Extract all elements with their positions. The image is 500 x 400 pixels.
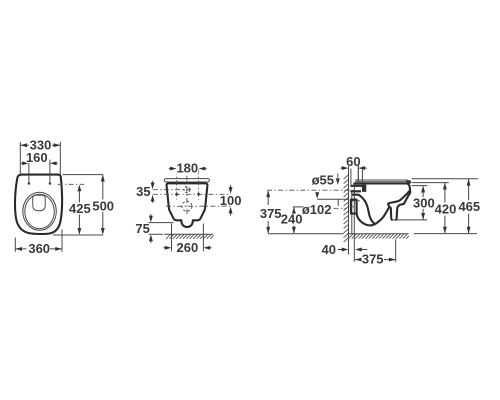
dim 330 text <box>29 137 52 152</box>
dim 375 bottom ext <box>395 239 397 262</box>
ø102 axis dash-dot after text <box>334 207 358 209</box>
dim 300 arrows <box>421 186 425 220</box>
ø102 top down arrow <box>315 192 319 199</box>
inner bowl <box>25 194 55 228</box>
svg-text:420: 420 <box>435 201 457 216</box>
ground line <box>164 233 213 235</box>
svg-text:425: 425 <box>69 201 91 216</box>
svg-text:260: 260 <box>177 240 199 255</box>
svg-text:ø55: ø55 <box>312 173 334 188</box>
svg-text:500: 500 <box>92 199 114 214</box>
dim 425 arrows <box>77 185 81 235</box>
svg-text:ø102: ø102 <box>302 202 332 217</box>
ø55 down arrow <box>336 174 340 185</box>
svg-text:75: 75 <box>135 221 149 236</box>
flush pipe vertical feeds <box>358 164 362 184</box>
back gap thin vertical <box>351 192 353 234</box>
wall face line <box>348 166 350 255</box>
dim 35 arrows <box>151 181 155 203</box>
svg-text:100: 100 <box>220 193 242 208</box>
floor line right segment <box>414 233 477 235</box>
svg-text:300: 300 <box>413 195 435 210</box>
dim 360 text <box>27 241 51 256</box>
inlet circle <box>184 187 190 193</box>
dim 360 arrows <box>15 247 62 251</box>
mounting holes <box>175 193 200 196</box>
dim 500 arrows <box>101 175 105 235</box>
body top edge <box>354 182 406 184</box>
dim 75 lines <box>149 223 174 235</box>
seat bar <box>164 179 209 182</box>
dim 465 arrows <box>467 179 471 234</box>
floor left segment <box>268 233 344 235</box>
dim 500 line <box>102 175 104 234</box>
dim 260 text <box>176 240 199 255</box>
dim 160 line <box>21 162 58 164</box>
slot left wall <box>389 207 392 220</box>
dim 465 ext line <box>412 178 478 180</box>
dim 240 arrows <box>292 207 296 234</box>
floor line under toilet <box>347 233 409 235</box>
dim 375 left arrows <box>266 190 270 233</box>
dim 100 arrows <box>229 185 233 216</box>
bowl bottom from stub <box>357 214 371 226</box>
seat ring outer <box>23 192 57 230</box>
dim 60 right ext <box>357 164 359 184</box>
slot bottom line <box>391 219 427 221</box>
dim 425 line <box>78 186 80 234</box>
svg-text:375: 375 <box>260 206 282 221</box>
holes axis horizontal <box>153 193 231 195</box>
rim front <box>396 184 410 220</box>
dim 375 bottom line <box>355 259 396 261</box>
svg-text:240: 240 <box>281 211 303 226</box>
dim 260 arrows <box>163 246 211 250</box>
toilet outer outline <box>15 175 62 234</box>
flush pipe bottom line <box>350 190 361 192</box>
seat lines <box>355 180 407 182</box>
dim 500 top ext <box>63 174 104 176</box>
svg-text:40: 40 <box>322 242 336 257</box>
drain stub <box>351 200 357 214</box>
toilet back ext line <box>353 184 355 262</box>
dim 180 arrows <box>169 167 207 171</box>
hinge axis dash-dot <box>58 183 85 185</box>
dim 330 line <box>20 144 60 146</box>
dim 60 arrows <box>340 166 367 170</box>
seat front tip <box>406 180 411 185</box>
dim 420 line <box>444 183 446 233</box>
dim 240 line <box>293 207 295 233</box>
dim 40 arrows <box>338 248 368 252</box>
dim 75 arrows <box>149 214 153 243</box>
hinge dots <box>28 182 51 184</box>
flush pipe top line <box>350 185 366 187</box>
ground hatching <box>166 234 214 239</box>
dim 160 arrows <box>22 161 56 165</box>
body outline <box>167 183 208 227</box>
dim 360 ext lines <box>15 230 62 252</box>
wall hatching <box>344 175 349 242</box>
holes vertical axes <box>177 169 199 199</box>
bowl front-bottom diagonal <box>370 207 389 226</box>
dim 360 line <box>15 248 62 250</box>
dim 260 ext lines <box>172 224 204 252</box>
dim 160 text <box>26 150 48 165</box>
inner back line <box>353 195 375 224</box>
dim 465 line <box>468 179 470 233</box>
dim 375 left line <box>267 191 269 233</box>
rim underside curve <box>388 191 409 207</box>
drain circle dashed <box>182 201 192 211</box>
water spot <box>33 195 46 211</box>
floor hatching <box>348 234 408 239</box>
stub top inner line <box>352 200 360 202</box>
svg-text:180: 180 <box>176 161 198 176</box>
dim 420 arrows <box>443 183 447 234</box>
ø102 top line <box>317 198 348 200</box>
ø102 axis solid left <box>293 206 304 208</box>
ø55 axis dash-dot <box>267 189 353 191</box>
dim 300 terminus lines <box>412 185 428 187</box>
dim 300 line <box>422 186 424 219</box>
ø102 up arrow <box>337 196 340 206</box>
wall back top vertical <box>350 169 352 185</box>
svg-text:160: 160 <box>26 150 48 165</box>
hinge extension lines <box>29 160 50 184</box>
dim 420 ext line <box>412 182 449 184</box>
dim 330 arrows <box>20 143 60 147</box>
svg-text:360: 360 <box>28 241 50 256</box>
svg-text:375: 375 <box>362 252 384 267</box>
drain axis horizontal <box>166 205 231 207</box>
dim 375 bottom arrows <box>355 258 396 262</box>
inlet/drain vertical axis <box>186 176 188 217</box>
inlet axis horizontal <box>153 189 193 191</box>
flush pipe end block <box>362 185 366 192</box>
dim 180 text <box>176 161 199 176</box>
svg-text:465: 465 <box>458 199 480 214</box>
svg-text:35: 35 <box>136 184 150 199</box>
dim 330 ext lines <box>20 142 60 174</box>
bottom ext line <box>53 234 103 236</box>
dim 375 bottom text <box>362 252 385 267</box>
